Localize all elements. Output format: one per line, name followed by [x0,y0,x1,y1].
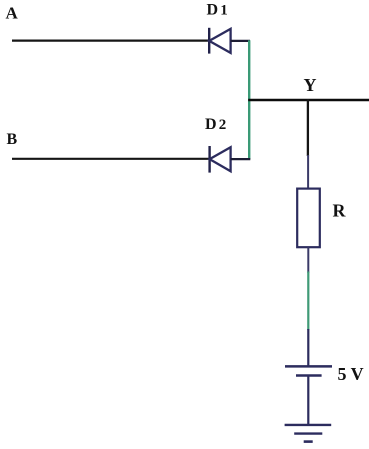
diode D2 [210,146,231,173]
svg-text:D1: D1 [207,2,228,19]
wire battery to ground [307,377,309,426]
wire D2 to junction [231,158,251,160]
svg-text:5 V: 5 V [338,364,364,384]
svg-text:B: B [7,131,18,148]
svg-text:R: R [333,201,347,221]
resistor bottom lead [307,247,309,273]
wire B to D2 [12,158,209,160]
wire D1 to junction [231,40,251,42]
wire to battery positive [307,329,309,366]
battery 5 V negative plate [296,374,322,377]
svg-text:D2: D2 [205,116,226,133]
svg-text:A: A [6,4,19,23]
battery 5 V positive plate [285,365,332,368]
svg-text:Y: Y [304,75,317,95]
resistor top lead [307,155,309,189]
diode D1 [209,28,230,54]
wire green resistor to battery [307,272,309,331]
wire green junction (D1/D2 outputs to node Y) [248,40,250,159]
wire node Y down to resistor [307,99,309,156]
wire node Y output [248,99,369,101]
wire A to D1 [12,39,209,41]
resistor R [297,189,320,248]
ground [285,425,332,442]
